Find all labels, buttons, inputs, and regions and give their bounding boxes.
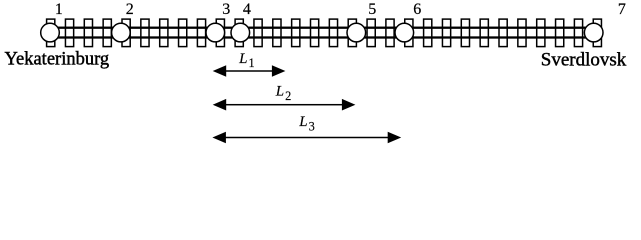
rail top — [45, 27, 599, 29]
station 5 circle — [347, 23, 366, 42]
station 6 circle — [395, 23, 414, 42]
railway ties — [47, 19, 602, 46]
svg-text:L2: L2 — [275, 84, 292, 103]
arrow L2 — [213, 99, 356, 111]
svg-text:2: 2 — [126, 1, 134, 18]
arrow L3 — [212, 132, 401, 144]
svg-text:L3: L3 — [298, 114, 315, 133]
svg-text:4: 4 — [243, 1, 251, 18]
station 7 circle — [584, 23, 603, 42]
svg-text:1: 1 — [55, 1, 63, 18]
station 4 circle — [231, 23, 250, 42]
station 3 circle — [206, 23, 225, 42]
svg-text:7: 7 — [618, 1, 626, 18]
rail bottom — [45, 36, 599, 38]
station 1 circle — [41, 23, 60, 42]
station 2 circle — [112, 23, 131, 42]
svg-text:Sverdlovsk: Sverdlovsk — [541, 49, 627, 70]
svg-text:6: 6 — [413, 1, 421, 18]
svg-text:3: 3 — [222, 1, 230, 18]
svg-text:L1: L1 — [238, 51, 255, 70]
arrow L1 — [213, 65, 286, 77]
svg-text:Yekaterinburg: Yekaterinburg — [5, 49, 110, 69]
svg-text:5: 5 — [368, 1, 376, 18]
